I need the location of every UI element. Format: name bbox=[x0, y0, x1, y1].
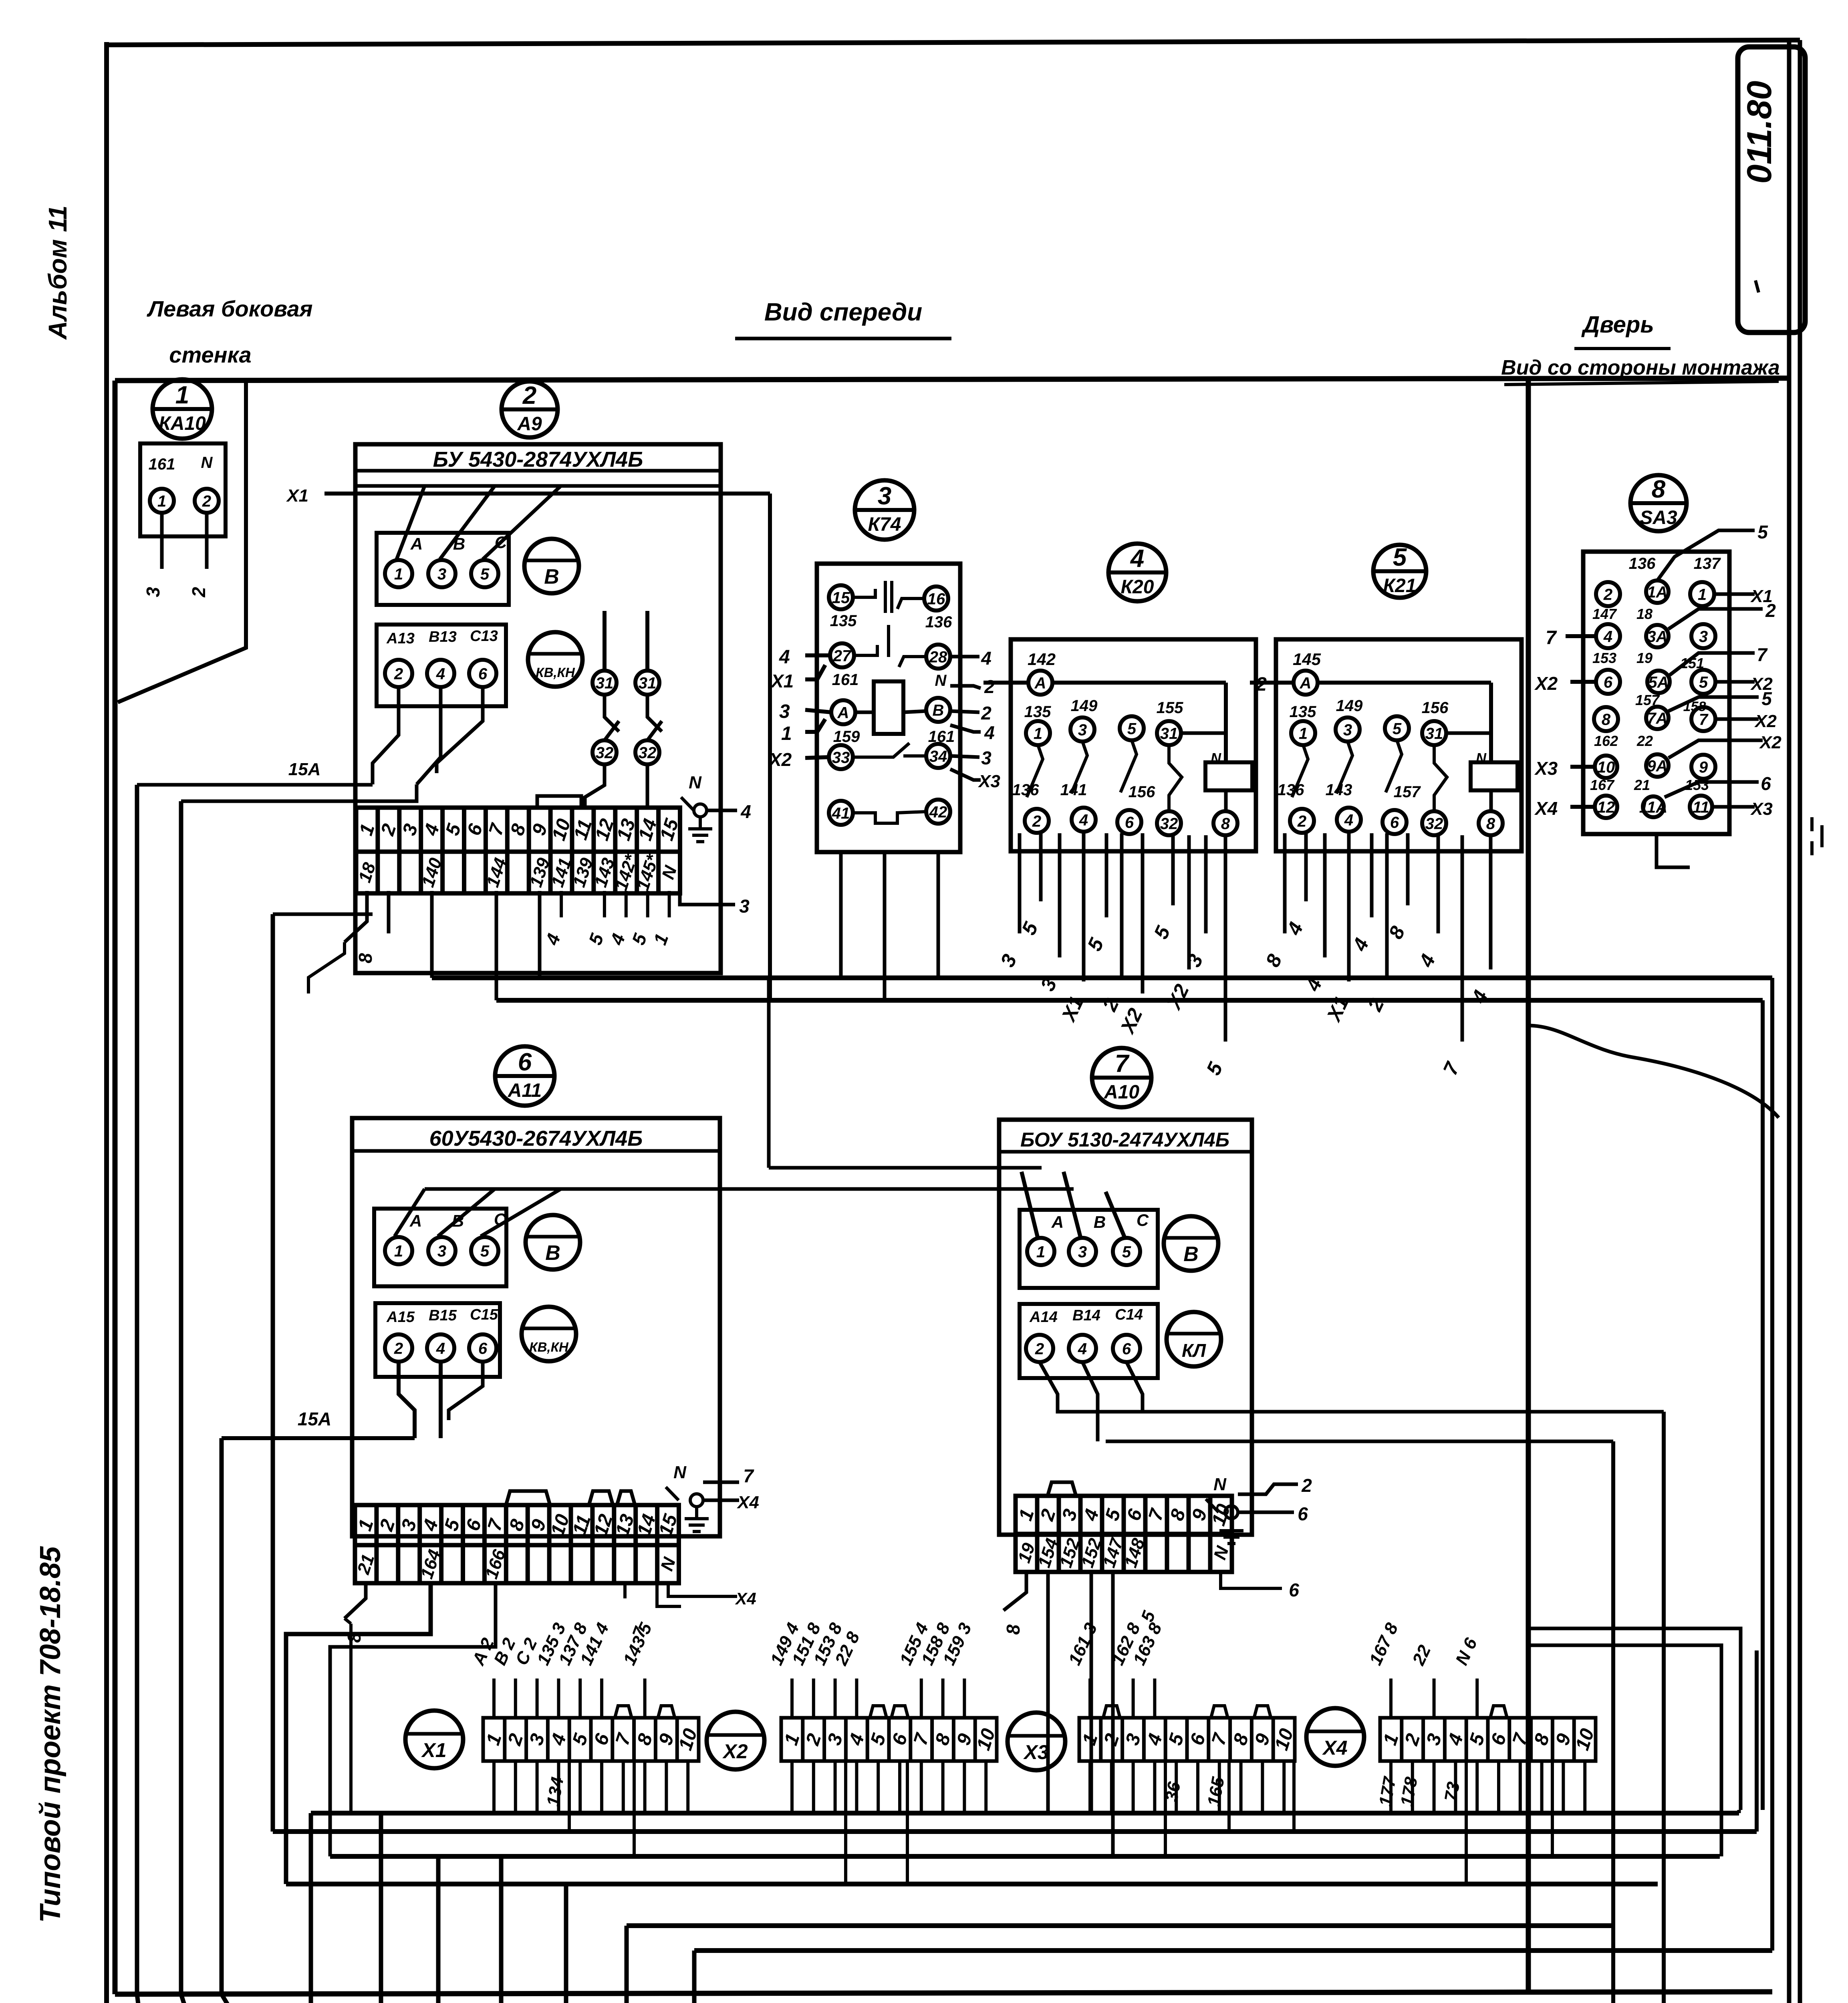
svg-text:5: 5 bbox=[628, 930, 651, 947]
svg-text:Х2: Х2 bbox=[1754, 711, 1777, 731]
svg-text:Х1: Х1 bbox=[1057, 993, 1088, 1026]
svg-text:6: 6 bbox=[462, 1517, 486, 1533]
wires from 31 circles up bbox=[603, 611, 607, 671]
meter V A10 bbox=[1164, 1216, 1218, 1271]
svg-text:7: 7 bbox=[1546, 627, 1557, 649]
svg-text:21: 21 bbox=[1634, 777, 1650, 793]
A11 strip drops bbox=[345, 1583, 366, 1618]
A11 jumper tabs bbox=[506, 1491, 550, 1505]
meter KL A10 bbox=[1167, 1312, 1221, 1366]
svg-text:5А: 5А bbox=[1648, 673, 1669, 691]
svg-text:9А: 9А bbox=[1647, 757, 1667, 775]
aux contacts 31/32 bbox=[592, 671, 617, 695]
svg-text:1: 1 bbox=[157, 492, 166, 510]
svg-text:134: 134 bbox=[543, 1775, 568, 1808]
long bus wire lower bbox=[496, 998, 1763, 1003]
svg-text:5: 5 bbox=[1202, 1058, 1227, 1078]
svg-text:157: 157 bbox=[1394, 783, 1421, 801]
svg-text:6: 6 bbox=[478, 665, 488, 683]
svg-text:Х1: Х1 bbox=[1322, 993, 1353, 1026]
svg-text:8: 8 bbox=[1166, 1506, 1190, 1523]
svg-text:В: В bbox=[933, 701, 944, 719]
svg-text:Х4: Х4 bbox=[1534, 798, 1558, 819]
svg-text:8: 8 bbox=[1602, 711, 1611, 728]
svg-text:1: 1 bbox=[482, 1731, 506, 1748]
svg-text:1: 1 bbox=[780, 1731, 804, 1748]
svg-text:2: 2 bbox=[1363, 995, 1389, 1015]
svg-text:33: 33 bbox=[832, 749, 850, 766]
svg-text:А: А bbox=[410, 534, 423, 553]
svg-text:12: 12 bbox=[1597, 798, 1615, 816]
svg-text:1: 1 bbox=[1698, 586, 1707, 603]
K74 right pins bbox=[950, 655, 979, 659]
SA3 box bbox=[1583, 552, 1729, 834]
svg-text:147: 147 bbox=[1592, 606, 1617, 622]
K20 contact strokes bbox=[1027, 745, 1043, 797]
svg-text:N: N bbox=[658, 863, 681, 882]
svg-text:4: 4 bbox=[420, 821, 443, 838]
A9 wire to bus bbox=[273, 913, 373, 916]
svg-text:Х1: Х1 bbox=[421, 1739, 446, 1761]
deeper drops bbox=[568, 1761, 571, 1832]
svg-text:3: 3 bbox=[779, 701, 790, 722]
pin 2 КА10 bbox=[195, 489, 219, 513]
svg-text:162: 162 bbox=[1594, 733, 1618, 749]
svg-text:1: 1 bbox=[394, 1242, 403, 1260]
A9 terminal strip bbox=[355, 808, 683, 893]
wire 15A from A9 to left bbox=[137, 783, 373, 787]
wire lead 2 bbox=[205, 513, 209, 569]
svg-text:73: 73 bbox=[1441, 1780, 1464, 1803]
svg-text:5: 5 bbox=[1393, 544, 1407, 571]
svg-text:В: В bbox=[544, 565, 559, 588]
svg-text:5: 5 bbox=[1122, 1243, 1131, 1261]
meter KV KN A9 bbox=[528, 632, 582, 687]
svg-text:6: 6 bbox=[518, 1048, 532, 1076]
svg-text:В: В bbox=[1094, 1213, 1106, 1231]
svg-text:2: 2 bbox=[1036, 1506, 1060, 1523]
svg-text:8: 8 bbox=[1003, 1624, 1024, 1635]
A9 header bbox=[355, 469, 721, 473]
svg-text:5: 5 bbox=[867, 1731, 890, 1748]
svg-text:2: 2 bbox=[1098, 995, 1123, 1015]
svg-text:А10: А10 bbox=[1104, 1082, 1139, 1103]
K21 bottom wires bbox=[1283, 833, 1287, 933]
svg-text:8: 8 bbox=[1221, 815, 1230, 832]
svg-text:7: 7 bbox=[1115, 1050, 1130, 1078]
svg-text:22: 22 bbox=[1636, 733, 1653, 749]
svg-text:6: 6 bbox=[888, 1731, 912, 1748]
svg-text:8: 8 bbox=[355, 953, 376, 963]
A10 jumper tab bbox=[1048, 1482, 1076, 1496]
svg-text:БОУ 5130-2474УХЛ4Б: БОУ 5130-2474УХЛ4Б bbox=[1020, 1128, 1229, 1151]
svg-text:1: 1 bbox=[394, 565, 403, 583]
A10 feed slants bbox=[1022, 1172, 1038, 1237]
svg-text:161: 161 bbox=[832, 671, 859, 689]
svg-text:11А: 11А bbox=[1639, 798, 1667, 816]
svg-text:КВ,КН: КВ,КН bbox=[529, 1340, 569, 1354]
svg-text:В: В bbox=[1183, 1243, 1199, 1266]
svg-text:137: 137 bbox=[1694, 555, 1721, 572]
ref bubble 6/А11 bbox=[495, 1046, 554, 1106]
svg-text:167: 167 bbox=[1590, 777, 1615, 793]
svg-text:2: 2 bbox=[522, 382, 536, 409]
svg-text:2: 2 bbox=[1297, 812, 1306, 830]
svg-text:2: 2 bbox=[1765, 600, 1776, 621]
svg-text:КВ,КН: КВ,КН bbox=[536, 665, 575, 680]
svg-text:Х2: Х2 bbox=[1534, 673, 1558, 694]
svg-text:С14: С14 bbox=[1115, 1306, 1143, 1323]
svg-text:31: 31 bbox=[1160, 725, 1178, 742]
X1 feed wire bbox=[324, 492, 770, 496]
svg-text:В13: В13 bbox=[429, 629, 457, 645]
svg-text:В15: В15 bbox=[429, 1307, 457, 1324]
long bus wire upper bbox=[432, 975, 1772, 980]
svg-text:8: 8 bbox=[1229, 1731, 1253, 1748]
svg-text:А14: А14 bbox=[1029, 1309, 1058, 1326]
svg-text:5: 5 bbox=[1761, 688, 1772, 709]
left side wall outline bbox=[118, 381, 246, 702]
svg-text:5: 5 bbox=[584, 930, 608, 947]
svg-text:3: 3 bbox=[1122, 1731, 1145, 1748]
K21 contact strokes bbox=[1292, 745, 1308, 797]
A10 terminal strip bbox=[1014, 1496, 1235, 1572]
svg-text:9: 9 bbox=[1699, 758, 1708, 776]
strip cell stubs down bbox=[492, 1761, 496, 1813]
svg-text:18: 18 bbox=[1636, 606, 1653, 622]
wire 15A-2 to left bbox=[222, 1436, 415, 1440]
SA3 right leads bbox=[1714, 592, 1755, 596]
A11 lower box steps bbox=[399, 1362, 415, 1438]
svg-text:Х2: Х2 bbox=[1759, 733, 1781, 752]
svg-text:6: 6 bbox=[1604, 673, 1613, 691]
svg-text:N: N bbox=[1211, 750, 1221, 766]
main enclosure box (front view) bbox=[115, 378, 1789, 381]
svg-text:2: 2 bbox=[1256, 674, 1267, 695]
svg-text:8: 8 bbox=[931, 1731, 955, 1748]
K20 bottom wires bbox=[1018, 833, 1022, 933]
harness buses bbox=[311, 1811, 1739, 1816]
svg-text:1: 1 bbox=[1299, 725, 1308, 742]
svg-text:1: 1 bbox=[1379, 1731, 1403, 1748]
svg-text:6: 6 bbox=[464, 821, 487, 838]
connector Х1 bbox=[405, 1711, 463, 1768]
wire from X1 label down bbox=[768, 494, 772, 1000]
svg-text:8: 8 bbox=[1261, 951, 1286, 970]
page frame bbox=[104, 42, 109, 2003]
svg-text:31: 31 bbox=[1425, 725, 1443, 742]
svg-text:5: 5 bbox=[442, 821, 466, 838]
SA3 bottom tail bbox=[1657, 834, 1690, 867]
svg-text:4: 4 bbox=[1603, 628, 1612, 645]
A10 wires to door bbox=[1134, 1410, 1664, 1414]
svg-text:153: 153 bbox=[1592, 650, 1616, 666]
A11 terminal strip bbox=[353, 1505, 682, 1583]
svg-text:N: N bbox=[657, 1555, 680, 1574]
svg-text:1: 1 bbox=[355, 821, 379, 838]
svg-text:34: 34 bbox=[929, 748, 947, 765]
A10 lower box steps bbox=[1040, 1362, 1134, 1412]
ref bubble 4/К20 bbox=[1108, 544, 1166, 601]
svg-text:N: N bbox=[1476, 750, 1487, 766]
svg-text:3: 3 bbox=[399, 821, 422, 838]
svg-text:4: 4 bbox=[547, 1731, 570, 1748]
svg-text:156: 156 bbox=[1129, 783, 1155, 801]
block A9 outer bbox=[355, 444, 721, 973]
K74 coil bbox=[874, 681, 903, 734]
svg-text:142: 142 bbox=[1028, 650, 1056, 669]
ref bubble 7/А10 bbox=[1092, 1048, 1151, 1107]
svg-text:3: 3 bbox=[437, 1242, 446, 1260]
svg-text:155: 155 bbox=[1157, 699, 1183, 717]
svg-text:5: 5 bbox=[1101, 1506, 1125, 1523]
svg-text:1: 1 bbox=[1015, 1507, 1038, 1523]
svg-text:32: 32 bbox=[1425, 815, 1443, 832]
svg-text:165: 165 bbox=[1204, 1775, 1228, 1808]
svg-text:3: 3 bbox=[981, 748, 992, 768]
svg-text:А: А bbox=[1300, 674, 1312, 692]
svg-text:15: 15 bbox=[832, 589, 850, 607]
cable drop verticals bbox=[379, 1813, 383, 2003]
svg-text:4: 4 bbox=[1079, 811, 1088, 829]
svg-text:А: А bbox=[1051, 1213, 1064, 1231]
ref bubble 5/К21 bbox=[1373, 544, 1426, 598]
svg-text:5: 5 bbox=[1465, 1731, 1489, 1748]
A11 lower terminal box bbox=[375, 1303, 500, 1377]
svg-text:Дверь: Дверь bbox=[1581, 312, 1654, 338]
svg-text:SА3: SА3 bbox=[1640, 507, 1677, 528]
fold marks right edge bbox=[1810, 817, 1814, 831]
svg-text:5: 5 bbox=[480, 1242, 490, 1260]
svg-text:7: 7 bbox=[1208, 1730, 1231, 1748]
component ref КА10 bbox=[153, 379, 212, 439]
svg-text:3: 3 bbox=[996, 951, 1021, 970]
A11 drop continuation bbox=[349, 1624, 353, 1813]
svg-text:8: 8 bbox=[1530, 1731, 1554, 1748]
svg-text:5: 5 bbox=[480, 565, 490, 583]
svg-text:3: 3 bbox=[739, 896, 750, 917]
svg-text:136: 136 bbox=[925, 613, 952, 631]
svg-text:1: 1 bbox=[1036, 1243, 1045, 1261]
A11 box bbox=[352, 1118, 720, 1536]
svg-text:5: 5 bbox=[1149, 922, 1175, 942]
svg-text:5: 5 bbox=[568, 1731, 592, 1748]
svg-text:135: 135 bbox=[1290, 703, 1316, 721]
svg-text:4: 4 bbox=[541, 931, 564, 948]
svg-text:28: 28 bbox=[929, 648, 947, 666]
right vertical drops bbox=[1662, 1412, 1666, 2003]
svg-text:8: 8 bbox=[1486, 815, 1495, 832]
svg-text:16: 16 bbox=[927, 590, 945, 608]
K21 coil bbox=[1471, 762, 1517, 790]
svg-text:11: 11 bbox=[1693, 798, 1709, 816]
svg-text:N: N bbox=[673, 1463, 687, 1482]
svg-text:С13: С13 bbox=[470, 628, 498, 645]
svg-text:2: 2 bbox=[981, 703, 992, 723]
meter V A9 bbox=[524, 539, 579, 593]
A10 lower terminal box bbox=[1020, 1304, 1158, 1378]
svg-text:Левая боковая: Левая боковая bbox=[146, 296, 312, 321]
svg-text:42: 42 bbox=[929, 803, 947, 821]
svg-text:3: 3 bbox=[1058, 1506, 1082, 1523]
terminal box КА10 bbox=[140, 443, 226, 536]
svg-text:3: 3 bbox=[878, 482, 891, 510]
svg-text:2: 2 bbox=[1603, 586, 1612, 603]
K74 left pins bbox=[805, 653, 830, 657]
svg-text:4: 4 bbox=[1444, 1731, 1467, 1748]
A9 strip right label 3 bbox=[680, 893, 735, 905]
svg-text:15А: 15А bbox=[288, 760, 321, 779]
door panel left edge bbox=[1526, 379, 1531, 1992]
svg-text:149: 149 bbox=[1071, 697, 1098, 715]
svg-text:В: В bbox=[545, 1241, 560, 1265]
A10 box bbox=[999, 1120, 1252, 1535]
svg-text:4: 4 bbox=[1080, 1507, 1103, 1524]
svg-text:6: 6 bbox=[478, 1340, 488, 1357]
svg-text:143 5: 143 5 bbox=[619, 1620, 656, 1668]
svg-text:4: 4 bbox=[419, 1517, 442, 1534]
svg-text:41: 41 bbox=[832, 804, 850, 822]
svg-text:3: 3 bbox=[1423, 1731, 1446, 1748]
ref bubble 3/К74 bbox=[855, 480, 914, 540]
left margin verticals bbox=[135, 785, 139, 1994]
svg-text:Х4: Х4 bbox=[736, 1493, 759, 1512]
svg-text:31: 31 bbox=[639, 674, 657, 692]
svg-text:3А: 3А bbox=[1647, 628, 1667, 645]
svg-text:2: 2 bbox=[394, 1340, 403, 1357]
svg-text:7: 7 bbox=[743, 1465, 754, 1486]
svg-text:2: 2 bbox=[202, 492, 211, 510]
K74 contact symbols bbox=[853, 589, 875, 597]
svg-text:Типовой проект 708-18.85: Типовой проект 708-18.85 bbox=[34, 1546, 67, 1923]
meter KV KN A11 bbox=[522, 1307, 576, 1361]
svg-text:А: А bbox=[409, 1211, 422, 1230]
svg-text:6: 6 bbox=[1186, 1731, 1210, 1748]
svg-text:4: 4 bbox=[1078, 1340, 1087, 1358]
svg-text:Х3: Х3 bbox=[977, 772, 1000, 791]
A9 strip cell drops bbox=[345, 891, 367, 942]
svg-text:2: 2 bbox=[504, 1731, 528, 1748]
A9 strip jumper bracket bbox=[537, 796, 581, 808]
svg-text:6: 6 bbox=[1487, 1731, 1511, 1748]
svg-text:N: N bbox=[1213, 1475, 1227, 1494]
svg-text:27: 27 bbox=[833, 647, 852, 665]
svg-text:19: 19 bbox=[1636, 650, 1653, 666]
svg-text:2: 2 bbox=[1032, 812, 1041, 830]
K74 contact 41-42 bbox=[853, 812, 926, 823]
svg-text:60У5430-2674УХЛ4Б: 60У5430-2674УХЛ4Б bbox=[429, 1126, 643, 1151]
svg-text:N: N bbox=[201, 454, 213, 472]
svg-text:3: 3 bbox=[526, 1731, 549, 1748]
svg-text:145: 145 bbox=[1293, 650, 1321, 669]
svg-text:3: 3 bbox=[437, 565, 446, 583]
svg-text:стенка: стенка bbox=[169, 342, 251, 367]
svg-text:N 6: N 6 bbox=[1452, 1635, 1481, 1668]
A9 feed slants bbox=[397, 486, 425, 559]
svg-text:178: 178 bbox=[1397, 1775, 1421, 1808]
A10 strip drops bbox=[1004, 1572, 1026, 1610]
A9 lower terminal box bbox=[377, 625, 506, 706]
svg-text:156: 156 bbox=[1422, 699, 1449, 717]
connector Х2 bbox=[707, 1712, 764, 1769]
svg-text:Х2: Х2 bbox=[1162, 981, 1193, 1014]
svg-text:К21: К21 bbox=[1383, 575, 1417, 596]
svg-text:7: 7 bbox=[1439, 1058, 1464, 1078]
svg-text:7А: 7А bbox=[1647, 709, 1667, 727]
A11 phase box bbox=[374, 1209, 506, 1286]
svg-text:5: 5 bbox=[1017, 918, 1042, 938]
svg-text:5: 5 bbox=[1699, 673, 1708, 691]
svg-text:4: 4 bbox=[1130, 545, 1144, 572]
svg-text:8: 8 bbox=[1652, 476, 1666, 503]
svg-text:15А: 15А bbox=[298, 1409, 331, 1429]
meter V A11 bbox=[526, 1215, 580, 1270]
svg-text:8: 8 bbox=[633, 1731, 657, 1748]
svg-text:32: 32 bbox=[639, 744, 657, 762]
svg-text:2: 2 bbox=[377, 821, 401, 838]
door bottom wire rectangles bbox=[1528, 1628, 1741, 1810]
svg-text:Х1: Х1 bbox=[770, 671, 794, 691]
svg-text:149: 149 bbox=[1336, 697, 1363, 715]
svg-text:161: 161 bbox=[149, 455, 175, 473]
connector Х4 bbox=[1306, 1708, 1364, 1766]
svg-text:167 8: 167 8 bbox=[1366, 1620, 1402, 1668]
svg-text:3: 3 bbox=[1699, 628, 1708, 645]
svg-text:6: 6 bbox=[1125, 814, 1134, 831]
svg-text:1: 1 bbox=[175, 381, 189, 409]
svg-text:4: 4 bbox=[1348, 935, 1373, 955]
svg-text:N: N bbox=[1210, 1544, 1233, 1562]
svg-text:А13: А13 bbox=[386, 630, 415, 647]
svg-text:2: 2 bbox=[188, 587, 209, 598]
svg-text:4: 4 bbox=[740, 801, 751, 822]
svg-text:Х4: Х4 bbox=[735, 1589, 756, 1608]
svg-text:32: 32 bbox=[1160, 815, 1178, 832]
svg-text:1: 1 bbox=[649, 931, 673, 948]
svg-text:4: 4 bbox=[779, 647, 790, 668]
svg-text:136: 136 bbox=[1629, 555, 1656, 572]
svg-text:6: 6 bbox=[590, 1731, 614, 1748]
svg-text:7: 7 bbox=[910, 1730, 933, 1748]
svg-text:В14: В14 bbox=[1072, 1307, 1100, 1324]
wire A11 to A10 upper bbox=[767, 978, 771, 1168]
svg-text:А15: А15 bbox=[386, 1309, 415, 1326]
svg-text:6: 6 bbox=[1123, 1506, 1147, 1523]
A9 lower box wiring steps bbox=[373, 687, 399, 784]
svg-text:32: 32 bbox=[596, 744, 614, 762]
svg-text:Х3: Х3 bbox=[1750, 799, 1773, 819]
svg-text:С15: С15 bbox=[470, 1306, 498, 1323]
K20 coil bbox=[1205, 762, 1252, 790]
svg-text:159: 159 bbox=[833, 728, 860, 746]
svg-text:4: 4 bbox=[1143, 1731, 1167, 1748]
svg-text:2: 2 bbox=[376, 1517, 399, 1534]
svg-text:3: 3 bbox=[397, 1517, 421, 1533]
svg-text:1А: 1А bbox=[1647, 583, 1667, 601]
svg-text:7: 7 bbox=[1699, 711, 1709, 728]
svg-text:8: 8 bbox=[505, 1517, 529, 1533]
svg-text:135: 135 bbox=[1024, 703, 1051, 721]
svg-text:5: 5 bbox=[1127, 720, 1137, 738]
svg-text:К20: К20 bbox=[1121, 576, 1154, 598]
svg-text:Х2: Х2 bbox=[722, 1740, 748, 1763]
K20 box bbox=[1011, 639, 1256, 851]
svg-text:6: 6 bbox=[1298, 1503, 1308, 1524]
svg-text:7: 7 bbox=[612, 1730, 635, 1748]
svg-text:2: 2 bbox=[1035, 1340, 1044, 1358]
K74 contact 33-34 bbox=[853, 743, 909, 757]
svg-text:31: 31 bbox=[596, 674, 614, 692]
